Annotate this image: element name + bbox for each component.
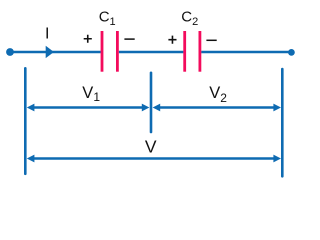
- tick middle: [150, 73, 153, 132]
- svg-text:V1: V1: [82, 84, 100, 104]
- arrow V1 head left: [27, 104, 35, 112]
- capacitor C2 plate left: [183, 31, 186, 72]
- capacitor C2 plate right: [198, 31, 201, 72]
- capacitor C1 plate left: [101, 31, 104, 72]
- label minus C1: [124, 38, 134, 40]
- label minus C2: [206, 39, 216, 41]
- svg-text:V: V: [145, 137, 157, 157]
- node left terminal: [6, 48, 14, 56]
- arrow V line: [32, 157, 276, 159]
- node right terminal: [288, 49, 295, 56]
- arrow V2 line: [158, 106, 276, 108]
- arrow V1 head right: [142, 104, 150, 112]
- svg-text:V2: V2: [209, 84, 227, 105]
- arrow V1 line: [32, 106, 145, 108]
- wire middle segment: [119, 51, 184, 53]
- current arrow: [46, 46, 54, 58]
- arrow V2 head right: [273, 104, 281, 112]
- svg-text:C1: C1: [99, 9, 116, 29]
- svg-text:C2: C2: [181, 9, 198, 29]
- arrow V head left: [27, 155, 35, 163]
- wire left segment: [10, 51, 101, 53]
- label plus C2: [168, 36, 176, 44]
- capacitor C1 plate right: [116, 31, 119, 72]
- label plus C1: [84, 35, 92, 43]
- svg-text:I: I: [45, 26, 49, 43]
- tick right: [281, 69, 284, 176]
- arrow V2 head left: [153, 104, 161, 112]
- tick left: [24, 68, 27, 174]
- arrow V head right: [273, 155, 281, 163]
- wire right segment: [201, 51, 291, 53]
